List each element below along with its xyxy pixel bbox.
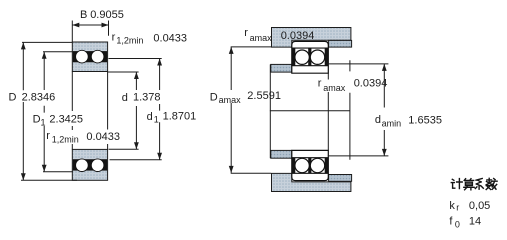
dimension d1: extension lines [109,59,162,160]
svg-text:1,2min: 1,2min [52,135,79,145]
svg-text:amax: amax [323,83,346,93]
svg-text:0,05: 0,05 [469,200,490,212]
ball 4 (bottom section) [91,159,104,172]
shaft right end line [349,60,351,160]
svg-text:amin: amin [382,119,402,129]
raceway lines (bottom section) [292,158,328,174]
shaft shoulder strip (bottom left) [271,150,292,158]
label 0.0394 (middle) [348,76,390,91]
label r amax (middle) [316,80,346,93]
ball 2 (right view top) [310,50,324,64]
svg-text:r: r [244,27,248,39]
cage band (bottom section) black [73,159,107,170]
svg-text:0.0394: 0.0394 [281,30,315,42]
svg-text:D: D [33,114,41,126]
housing spacer strip (top right) [329,40,352,47]
axis line [270,110,350,112]
housing (bottom) with left shoulder [272,173,351,191]
raceway lines (top section) [292,48,328,66]
svg-text:1.8701: 1.8701 [163,111,197,123]
dimension D: extension lines [21,42,77,180]
svg-text:0.0394: 0.0394 [354,78,388,90]
dimension D: vertical line with arrows [22,42,24,180]
label D1 2.3425 [32,113,84,126]
svg-text:r: r [318,77,322,89]
svg-text:1.378: 1.378 [133,91,161,103]
bearing bore edge line (right side of sections) [327,73,329,150]
svg-text:d: d [375,114,381,126]
dimension Damax: extension lines [231,47,271,173]
dimension d: extension lines [108,72,139,149]
hanzi suan (count) [464,179,474,190]
svg-text:d: d [147,111,153,123]
svg-text:0: 0 [455,219,460,229]
cage bars (bottom section) [292,158,295,174]
ball 2 (top section) [91,50,104,63]
bore line left (x=72.3) [71,72,73,150]
svg-text:0.0433: 0.0433 [153,33,187,45]
dimension D1: extension lines [43,52,73,172]
svg-text:2.8346: 2.8346 [22,91,56,103]
bearing section (top) white [292,41,329,73]
housing (top) with left shoulder [272,28,351,48]
cage band (top section) black [73,51,107,62]
svg-text:d: d [122,92,128,104]
svg-text:2.5591: 2.5591 [247,90,281,102]
bearing section (bottom) white [292,150,329,180]
svg-text:1,2min: 1,2min [116,36,143,46]
svg-text:r: r [456,203,459,213]
svg-text:D: D [210,92,218,104]
svg-text:r: r [112,31,116,43]
dimension d: vertical line with arrows [135,72,137,149]
svg-text:amax: amax [250,33,273,43]
ball 3 (bottom section) [76,159,89,172]
label: calculation factors (Chinese, hand-drawn strokes) [451,178,497,190]
svg-text:0.0433: 0.0433 [86,131,120,143]
dimension damin: extension lines [327,64,388,156]
svg-text:0.9055: 0.9055 [90,9,124,21]
ball 3 (right view bottom) [295,158,309,172]
outer+inner ring section (top), blue hatched block [72,42,107,72]
label r1,2min 0.0433 (lower) [46,130,121,144]
svg-text:1: 1 [41,117,46,127]
svg-text:r: r [46,130,50,142]
svg-text:1: 1 [154,114,159,124]
svg-text:D: D [9,91,17,103]
ball 4 (right view bottom) [310,158,324,172]
shaft shoulder strip (top left) [271,64,292,72]
dimension Damax: vertical line with arrows [230,47,232,173]
dimension D1: vertical line with arrows [43,52,45,172]
hanzi shu (number) [486,178,497,189]
ball 1 (top section) [76,50,89,63]
dimension B: line with arrows [72,24,108,26]
bore line right (x=107.6) [107,72,109,150]
ball 1 (right view top) [295,50,309,64]
svg-text:k: k [449,200,455,212]
svg-text:1.6535: 1.6535 [408,114,442,126]
housing spacer strip (bottom right) [329,175,352,182]
shaft left end line [269,64,271,158]
svg-text:amax: amax [219,95,242,105]
hanzi xi (series) [475,179,483,190]
dimension d1: vertical line with arrows [159,59,161,160]
inner/outer ring section (bottom), blue hatched block [72,149,107,180]
hanzi ji (compute) [451,179,462,189]
svg-text:B: B [80,9,87,21]
dimension damin: vertical line with arrows [383,64,385,156]
svg-text:2.3425: 2.3425 [49,114,83,126]
svg-text:14: 14 [469,216,481,228]
cage bars (top section) [292,48,295,66]
dimension B: extension lines [72,21,108,43]
